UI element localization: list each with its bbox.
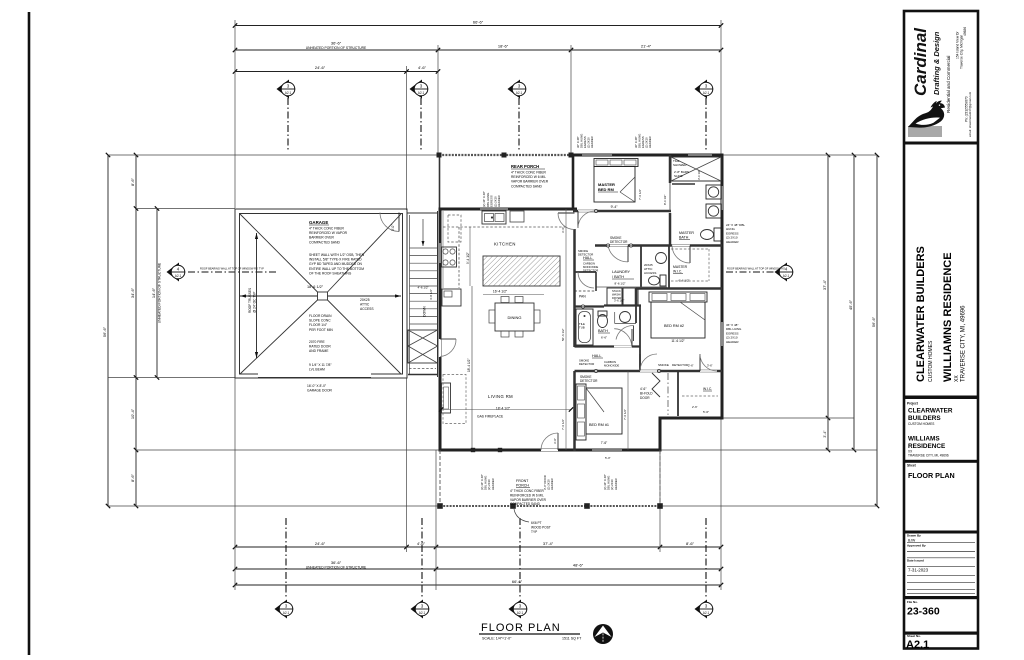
svg-text:HEADER: HEADER [648, 136, 652, 148]
master bed door on wall [578, 210, 596, 212]
svg-text:5’-0”: 5’-0” [605, 456, 611, 460]
fireplace [442, 383, 451, 413]
svg-text:WASH/: WASH/ [612, 292, 621, 296]
svg-text:18’-6 1/2”: 18’-6 1/2” [307, 285, 324, 289]
svg-text:COMPACTED SAND: COMPACTED SAND [510, 502, 541, 506]
svg-text:GARAGE DOOR: GARAGE DOOR [307, 389, 333, 393]
svg-text:56’-6”: 56’-6” [871, 316, 876, 327]
svg-text:34’-6”: 34’-6” [130, 287, 135, 298]
svg-text:37’-4”: 37’-4” [822, 279, 827, 290]
svg-text:4’-6 1/2”: 4’-6 1/2” [417, 286, 428, 290]
svg-text:20X25: 20X25 [360, 298, 370, 302]
svg-text:HEADER: HEADER [497, 195, 501, 207]
left section marker 4 [167, 263, 186, 282]
range [442, 247, 457, 267]
svg-text:4’-6”: 4’-6” [418, 65, 427, 70]
svg-text:email: sheetmetal247@gmail.com: email: sheetmetal247@gmail.com [968, 91, 972, 137]
north arrow [593, 624, 613, 644]
svg-text:ENTIRE WALL UP TO THE BOTTOM: ENTIRE WALL UP TO THE BOTTOM [309, 267, 364, 271]
svg-text:Drawn By: Drawn By [907, 533, 921, 537]
svg-text:14’-6”: 14’-6” [151, 287, 156, 298]
svg-text:3’-6”: 3’-6” [561, 227, 565, 233]
svg-text:18’-4 1/2”: 18’-4 1/2” [467, 359, 471, 372]
svg-text:36’-6”: 36’-6” [331, 41, 342, 46]
svg-text:9 1/4” X 11 7/8”: 9 1/4” X 11 7/8” [309, 363, 331, 367]
svg-text:RATED DOOR: RATED DOOR [309, 345, 331, 349]
bottom wall [439, 449, 662, 452]
laundry toilet [660, 275, 666, 286]
svg-text:3’-4”: 3’-4” [823, 430, 827, 438]
kitchen sink [482, 211, 506, 224]
svg-text:LVL BEAM: LVL BEAM [309, 368, 325, 372]
svg-text:2070 FIRE: 2070 FIRE [309, 340, 326, 344]
svg-text:HALL: HALL [583, 256, 593, 260]
svg-text:FLOOR 1/4”: FLOOR 1/4” [309, 323, 327, 327]
svg-text:UNHEATED PORTION OF STRUCTURE: UNHEATED PORTION OF STRUCTURE [306, 565, 367, 569]
bath right wall [639, 307, 641, 347]
garage center dim line 10-6 [240, 295, 318, 297]
svg-text:18’-4 1/2”: 18’-4 1/2” [496, 407, 510, 411]
top wall master bed segment [573, 154, 722, 157]
svg-text:A2.1: A2.1 [285, 91, 292, 95]
svg-text:7’-6”: 7’-6” [601, 441, 607, 445]
svg-text:REINFORCED W 6 MIL: REINFORCED W 6 MIL [510, 493, 544, 497]
svg-text:A2.1: A2.1 [418, 91, 425, 95]
dimension row2 top: 36-6 / 18-6 / 21-4 [235, 49, 721, 51]
svg-text:VAPOR BARRIER OVER: VAPOR BARRIER OVER [510, 498, 547, 502]
svg-text:Sheet: Sheet [907, 464, 917, 468]
interior vertical dim x566 [565, 209, 567, 450]
bath bottom wall [575, 345, 641, 347]
svg-text:ROOF BEARING WALL AT TOP OF WI: ROOF BEARING WALL AT TOP OF WINDOW RO [727, 267, 785, 271]
svg-text:BATH: BATH [679, 236, 689, 240]
svg-text:18’-6”: 18’-6” [498, 44, 509, 49]
stairs walls [406, 211, 408, 377]
svg-text:3’-6”: 3’-6” [707, 364, 713, 368]
svg-text:37’-4”: 37’-4” [543, 541, 554, 546]
svg-text:8’-6 1/2”: 8’-6 1/2” [614, 282, 625, 286]
svg-text:9’-4 1/2”: 9’-4 1/2” [466, 252, 470, 264]
svg-text:A2.1: A2.1 [783, 274, 790, 278]
bed rm2 left wall [635, 289, 638, 306]
rear porch posts [437, 153, 442, 158]
right wall [721, 154, 724, 420]
drawn-by block [904, 531, 978, 534]
svg-text:A2.1: A2.1 [419, 611, 426, 615]
svg-text:1511 SQ FT: 1511 SQ FT [562, 637, 582, 641]
master wic shelves dashed [671, 248, 709, 250]
right dim 3-4 [827, 418, 829, 450]
window gaps in top wall [582, 154, 612, 156]
tub [576, 309, 593, 345]
svg-text:HEADER: HEADER [491, 478, 495, 490]
svg-text:Sheet No.: Sheet No. [907, 634, 921, 638]
wic2 door opening [700, 370, 717, 372]
svg-text:ACCESS: ACCESS [644, 271, 656, 275]
svg-text:LIVING RM: LIVING RM [488, 394, 513, 399]
svg-text:SHOWER: SHOWER [673, 163, 687, 167]
wic door arc top right [711, 371, 713, 388]
garage center box [318, 292, 328, 300]
svg-text:A2.1: A2.1 [175, 274, 182, 278]
svg-text:TRAVERSE CITY, MI, 49696: TRAVERSE CITY, MI, 49696 [908, 454, 949, 458]
svg-text:48’-6”: 48’-6” [573, 563, 584, 568]
svg-text:Approved By: Approved By [907, 544, 926, 548]
svg-text:3’-0”: 3’-0” [553, 438, 557, 444]
svg-text:CLEARWATER: CLEARWATER [908, 408, 953, 415]
refrigerator [442, 289, 461, 306]
svg-text:7’-6 1/2”: 7’-6 1/2” [638, 189, 642, 200]
svg-text:HEADER: HEADER [550, 478, 554, 490]
washer dryer [596, 286, 667, 288]
divider bar [904, 142, 978, 145]
svg-text:6’-6”: 6’-6” [601, 336, 607, 340]
left dim 56-6 [107, 155, 109, 506]
svg-text:LAUNDRY: LAUNDRY [612, 270, 631, 274]
svg-text:MONOXIDE: MONOXIDE [604, 363, 619, 367]
front porch deck edge [440, 505, 660, 507]
svg-text:CLEARWATER BUILDERS: CLEARWATER BUILDERS [915, 246, 927, 382]
svg-text:66’-6”: 66’-6” [473, 20, 484, 25]
svg-text:COMPACTED SAND: COMPACTED SAND [511, 184, 543, 188]
bed rm2 top wall [636, 287, 722, 290]
svg-text:Date Issued: Date Issued [907, 559, 924, 563]
svg-text:2’-6”: 2’-6” [688, 364, 694, 368]
bottom dim row C: 66-6 [235, 584, 721, 586]
svg-text:SCALE: 1/4”=1’-0”: SCALE: 1/4”=1’-0” [482, 637, 512, 641]
bottom wall post marks [471, 448, 475, 452]
svg-text:ACCESS: ACCESS [360, 307, 374, 311]
svg-text:45’-6”: 45’-6” [848, 299, 853, 310]
svg-text:9’-4”: 9’-4” [611, 205, 618, 209]
hall bottom wall y371 [575, 370, 723, 373]
svg-text:HEADER: HEADER [726, 340, 739, 344]
svg-text:21’-4”: 21’-4” [641, 44, 652, 49]
svg-text:VAPOR BARRIER OVER: VAPOR BARRIER OVER [511, 180, 549, 184]
kitchen-hall door [558, 212, 575, 214]
svg-text:ATTIC: ATTIC [360, 303, 370, 307]
bottom section markers [275, 600, 294, 619]
svg-text:BED RM: BED RM [598, 187, 614, 192]
bath door [614, 346, 632, 348]
svg-text:DOWN: DOWN [423, 306, 427, 317]
svg-text:ROOF TRUSSES: ROOF TRUSSES [248, 288, 252, 313]
svg-text:7-31-2023: 7-31-2023 [908, 568, 929, 573]
living rm dim line 18-4 [441, 409, 571, 411]
bath toilet [598, 311, 607, 316]
svg-text:KITCHEN: KITCHEN [494, 242, 516, 247]
rear porch top edge [439, 154, 573, 156]
left extension lines [108, 154, 439, 156]
svg-text:CUSTOM HOMES: CUSTOM HOMES [928, 340, 934, 382]
svg-text:BJW: BJW [908, 538, 916, 542]
kitchen upper cab line [510, 211, 524, 224]
svg-text:6’-6 1/2”: 6’-6 1/2” [678, 279, 689, 283]
svg-text:56’-6”: 56’-6” [102, 326, 107, 337]
top extension lines [234, 20, 236, 208]
bath sink [620, 312, 631, 323]
svg-text:BED RM #2: BED RM #2 [664, 324, 684, 328]
svg-text:DETECTOR: DETECTOR [672, 363, 689, 367]
svg-text:DINING: DINING [508, 315, 522, 320]
left dim chain 8-6/34-6/10-4/8-6 [135, 155, 137, 506]
svg-text:4” THICK CONC FIBER: 4” THICK CONC FIBER [510, 489, 544, 493]
svg-text:OF THE ROOF SHEATHING: OF THE ROOF SHEATHING [309, 271, 352, 275]
bed2 bed [649, 292, 707, 302]
svg-text:A2.1: A2.1 [703, 611, 710, 615]
svg-text:4’-6”: 4’-6” [640, 387, 646, 391]
bed1 door opening [640, 370, 657, 372]
svg-text:A2.1: A2.1 [703, 91, 710, 95]
hall bottom wall y245.5 [595, 244, 722, 247]
svg-text:PORCH: PORCH [516, 484, 529, 488]
stairs up arrow [422, 219, 424, 246]
svg-text:7’-6 1/2”: 7’-6 1/2” [623, 409, 627, 420]
svg-text:WILLIAMNS RESIDENCE: WILLIAMNS RESIDENCE [942, 252, 954, 382]
svg-text:/ BATH: / BATH [612, 275, 624, 279]
bed1 bed [576, 384, 586, 440]
lower right wall x660 [659, 418, 662, 452]
svg-text:DOOR: DOOR [640, 396, 650, 400]
svg-text:DETECTOR: DETECTOR [610, 240, 628, 244]
living interior dim line [471, 286, 473, 450]
svg-text:36’-6”: 36’-6” [331, 560, 342, 565]
svg-text:8’-6”: 8’-6” [130, 473, 135, 482]
svg-text:66’-6”: 66’-6” [512, 579, 523, 584]
svg-text:FLOOR DRAIN: FLOOR DRAIN [309, 314, 332, 318]
svg-text:4’-8 1/2”: 4’-8 1/2” [429, 289, 433, 300]
svg-text:Cardinal: Cardinal [911, 27, 930, 96]
svg-text:TUB: TUB [579, 326, 585, 330]
right extension lines [722, 154, 877, 156]
svg-text:Drafting & Design: Drafting & Design [932, 31, 941, 95]
title block frame [904, 11, 978, 649]
svg-text:24’-6”: 24’-6” [315, 65, 326, 70]
kitchen island dim line [483, 294, 544, 296]
svg-text:10’-4”: 10’-4” [130, 408, 135, 419]
dimension row 66-6 top [235, 25, 721, 27]
svg-text:HEADER: HEADER [590, 136, 594, 148]
right dim 37-4 [827, 155, 829, 418]
svg-text:COMPACTED SAND: COMPACTED SAND [309, 240, 341, 244]
svg-text:BED RM #1: BED RM #1 [589, 423, 609, 427]
svg-text:5’-6”: 5’-6” [703, 410, 709, 414]
svg-text:23-360: 23-360 [907, 606, 940, 618]
svg-text:FLOOR PLAN: FLOOR PLAN [908, 471, 955, 480]
bottom extension lines [234, 378, 236, 591]
svg-text:50’-6 1/2”: 50’-6 1/2” [561, 328, 565, 341]
svg-text:FRONT: FRONT [516, 479, 529, 483]
right dim 56-6 [876, 155, 878, 506]
right dim 45-6 [853, 155, 855, 450]
bed rm2 door [635, 306, 637, 324]
bumpout wall y418 [659, 417, 724, 420]
svg-text:8’-6”: 8’-6” [130, 177, 135, 186]
laundry door opening [608, 245, 628, 247]
svg-text:16’-0” X 8’-0”: 16’-0” X 8’-0” [307, 384, 326, 388]
svg-text:3’-0”: 3’-0” [391, 225, 395, 231]
svg-text:24’-6”: 24’-6” [315, 541, 326, 546]
svg-text:File No.: File No. [907, 600, 918, 604]
svg-text:BATH: BATH [598, 329, 608, 333]
master bath toilet [714, 228, 721, 241]
svg-text:ROOF BEARING WALL AT TOP OF WI: ROOF BEARING WALL AT TOP OF WINDOW RO TY… [200, 267, 264, 271]
svg-text:TRAVERSE CITY, MI, 49696: TRAVERSE CITY, MI, 49696 [961, 305, 967, 382]
porch posts [437, 503, 443, 509]
svg-text:Traverse City, Michigan: Traverse City, Michigan [960, 35, 964, 69]
front porch dashed edges [439, 450, 441, 506]
svg-text:UNHEATED PORTION OF STRUCTURE: UNHEATED PORTION OF STRUCTURE [158, 262, 162, 323]
master wic walls [668, 246, 670, 289]
svg-text:@ 24” OC TYP: @ 24” OC TYP [253, 292, 257, 313]
svg-text:TYP: TYP [531, 530, 537, 534]
front door opening in left wall [439, 339, 441, 357]
closet wall x678 [677, 371, 679, 416]
garage door opening [258, 373, 371, 375]
svg-text:WOOD POST: WOOD POST [531, 525, 551, 529]
pan door [578, 272, 594, 288]
garage door arc to house [380, 213, 399, 232]
svg-text:8’-6”: 8’-6” [686, 541, 695, 546]
garage roof diagonals [240, 214, 318, 292]
svg-text:SLOPE CONC: SLOPE CONC [309, 319, 331, 323]
sheet left border line [28, 12, 31, 655]
svg-text:2’-6”: 2’-6” [692, 405, 698, 409]
svg-text:4” THICK CONC FIBER: 4” THICK CONC FIBER [309, 227, 345, 231]
svg-text:HEADER: HEADER [726, 240, 739, 244]
svg-text:XX: XX [954, 375, 960, 382]
shower wall x669 [669, 155, 672, 183]
svg-text:DETECTOR: DETECTOR [579, 362, 594, 366]
bath sink counter [614, 312, 616, 324]
svg-text:BI-FOLD: BI-FOLD [640, 392, 653, 396]
bar2 [904, 396, 978, 400]
svg-text:DETECTOR: DETECTOR [578, 253, 593, 257]
bottom dim row B: 36-6 / 48-6 [235, 568, 721, 570]
svg-text:A2.1: A2.1 [906, 639, 929, 651]
wic door opening [672, 245, 690, 247]
living door to porch [541, 449, 558, 451]
svg-text:8’-6 1/2”: 8’-6 1/2” [663, 195, 667, 205]
svg-text:3’-6 1/2”: 3’-6 1/2” [697, 170, 701, 180]
bottom dim row A: 24-6/4-6/37-4/8-6 [235, 546, 721, 548]
svg-text:DETECTOR: DETECTOR [580, 379, 598, 383]
kitchen depth dim line [469, 227, 471, 286]
svg-text:RESIDENCE: RESIDENCE [908, 443, 946, 450]
bath top wall y306.5 [575, 305, 605, 307]
stair treads [410, 247, 438, 249]
svg-text:6X6 PT: 6X6 PT [531, 521, 542, 525]
svg-text:Project: Project [907, 402, 919, 406]
interior dim line right zone [627, 371, 629, 450]
kitchen counters dashed [443, 226, 566, 228]
svg-text:Residential and Commercial: Residential and Commercial [946, 56, 951, 113]
svg-text:INSTALL 5/8” TYPE-X FIRE RATED: INSTALL 5/8” TYPE-X FIRE RATED [309, 258, 362, 262]
svg-text:4” THICK CONC FIBER: 4” THICK CONC FIBER [511, 171, 547, 175]
svg-text:3’-6 1/2”: 3’-6 1/2” [614, 299, 624, 303]
smoke detector symbols [594, 209, 597, 212]
svg-text:MASTER: MASTER [673, 265, 688, 269]
garage walls [235, 209, 407, 378]
svg-text:GYP BD TAPED AND MUDDED ON: GYP BD TAPED AND MUDDED ON [309, 262, 363, 266]
cardinal bird [908, 126, 942, 137]
master bed walls: bottom of bedroom [573, 210, 671, 213]
shower bottom line / barn slide [671, 180, 700, 182]
master bath sinks [706, 185, 721, 199]
entry closet under stairs [408, 330, 438, 363]
svg-text:A2.1: A2.1 [517, 611, 524, 615]
svg-text:FLOOR PLAN: FLOOR PLAN [481, 622, 561, 634]
svg-text:49686: 49686 [963, 27, 967, 36]
svg-text:BARRIER OVER: BARRIER OVER [309, 236, 335, 240]
svg-text:REINFORCED W 6 MIL: REINFORCED W 6 MIL [511, 175, 546, 179]
dimension row3 top: 24-6 / 4-6 [235, 71, 438, 73]
left dim unheated label [156, 209, 158, 378]
svg-text:W.I.C.: W.I.C. [703, 387, 712, 391]
svg-text:HEADER: HEADER [614, 478, 618, 490]
svg-text:A2.1: A2.1 [283, 611, 290, 615]
svg-text:GAS FIREPLACE: GAS FIREPLACE [477, 415, 504, 419]
svg-text:GARAGE: GARAGE [309, 220, 328, 225]
svg-text:UNHEATED PORTION OF STRUCTURE: UNHEATED PORTION OF STRUCTURE [306, 46, 367, 50]
garage truss dim arrow [256, 233, 258, 358]
svg-text:W.I.C.: W.I.C. [673, 270, 682, 274]
kitchen upper cab dashed box [448, 215, 461, 242]
kitchen top wall [439, 208, 578, 211]
left wall [439, 155, 441, 209]
bath/bed2 nook door [633, 326, 635, 342]
svg-text:MASTER: MASTER [679, 231, 694, 235]
right section marker 4 [775, 263, 794, 282]
dining table [495, 303, 534, 331]
laundry sink [656, 253, 667, 264]
svg-text:PAN: PAN [579, 295, 586, 299]
central wall x574 [573, 209, 576, 212]
svg-text:4’-6”: 4’-6” [417, 541, 426, 546]
svg-text:CUSTOM HOMES: CUSTOM HOMES [908, 422, 934, 426]
svg-text:7’-6 1/2”: 7’-6 1/2” [561, 419, 565, 430]
svg-text:SMOKE: SMOKE [658, 363, 669, 367]
svg-text:REINFORCED W VAPOR: REINFORCED W VAPOR [309, 231, 348, 235]
svg-text:SLIDE: SLIDE [674, 174, 683, 178]
svg-text:16’-4 1/2”: 16’-4 1/2” [493, 290, 507, 294]
svg-text:WILLIAMS: WILLIAMS [908, 436, 940, 443]
svg-text:11’-6 1/2”: 11’-6 1/2” [671, 339, 684, 343]
svg-text:A2.1: A2.1 [516, 91, 523, 95]
svg-text:SHEET WALL WITH 1/2” OSB, THEN: SHEET WALL WITH 1/2” OSB, THEN [309, 253, 365, 257]
svg-text:AND FRAME: AND FRAME [309, 349, 329, 353]
svg-text:PER FOOT MIN: PER FOOT MIN [309, 328, 333, 332]
tile shower [671, 157, 721, 181]
laundry bottom wall [604, 304, 641, 306]
svg-text:STACK: STACK [612, 289, 621, 293]
laundry left wall [640, 246, 642, 288]
svg-text:HALL: HALL [592, 354, 602, 358]
top section markers with cut lines [277, 80, 296, 99]
master bed bed [594, 159, 638, 167]
rear porch right wall [572, 155, 575, 210]
svg-text:REAR PORCH: REAR PORCH [511, 164, 539, 169]
